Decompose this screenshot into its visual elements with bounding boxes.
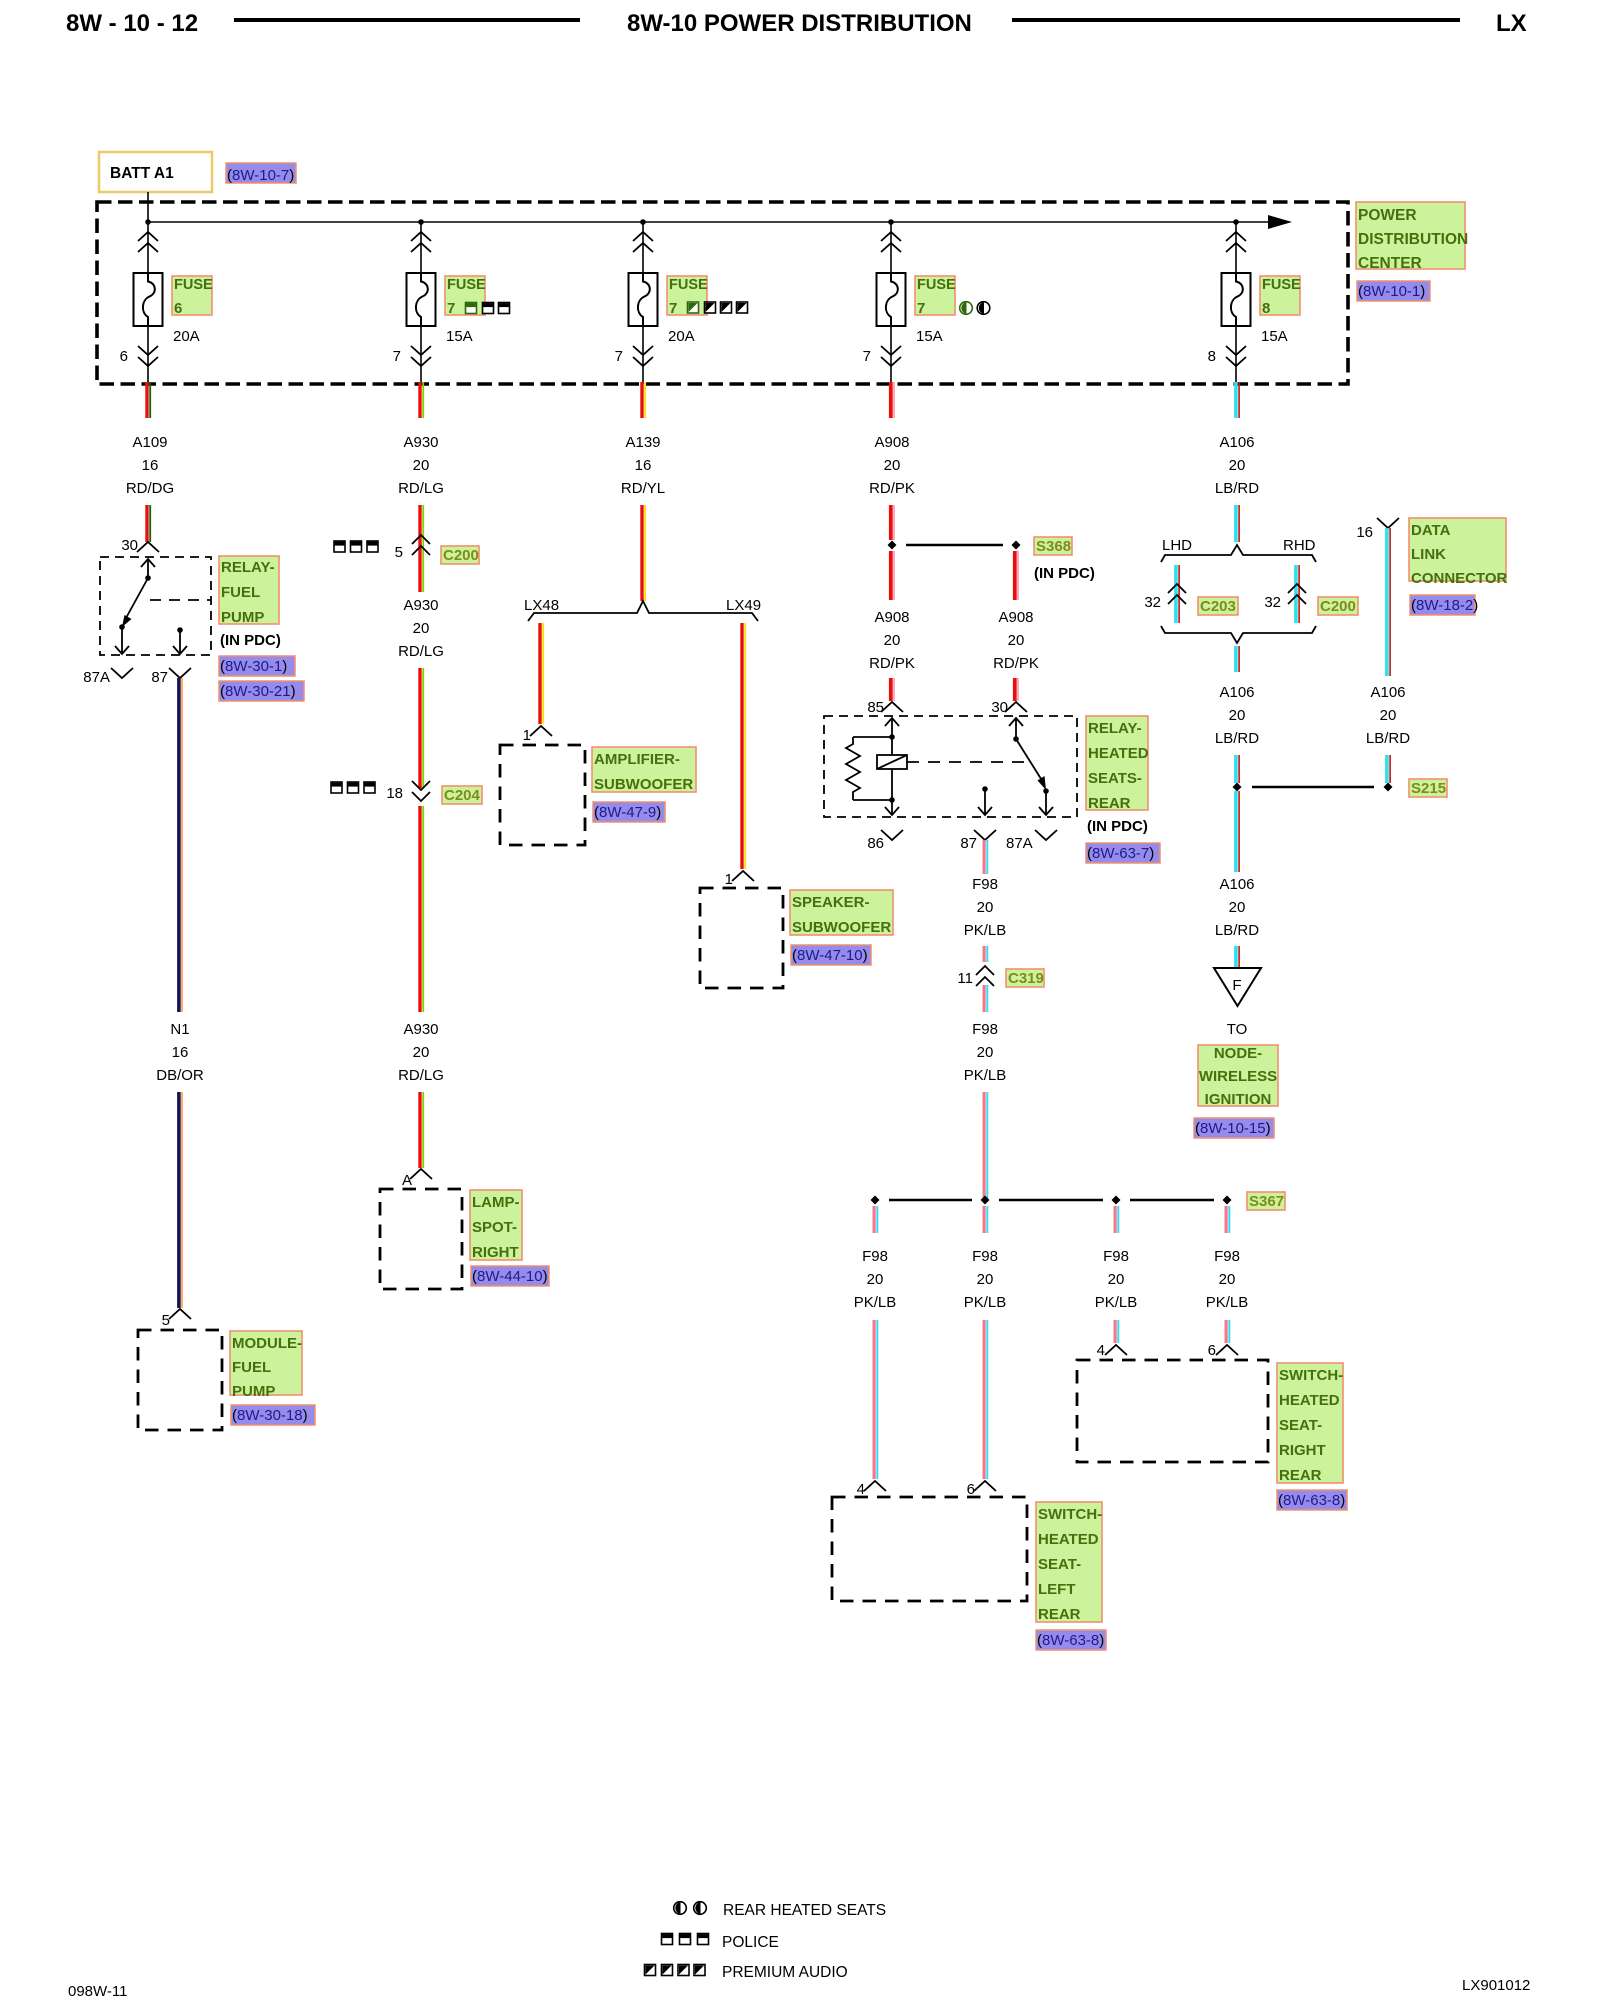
svg-text:LHD: LHD [1162, 537, 1192, 554]
wire F98 branch 2 lower [983, 1320, 989, 1479]
svg-text:C200: C200 [1320, 598, 1356, 615]
splice S368 [888, 541, 1021, 550]
svg-text:20: 20 [1229, 457, 1246, 474]
label F98 20 PK/LB (2) [964, 1021, 1007, 1084]
svg-text:CENTER: CENTER [1358, 255, 1422, 272]
pin 30 relay fuel pump [121, 537, 159, 554]
svg-text:RELAY-: RELAY- [1088, 720, 1142, 737]
svg-text:A: A [402, 1172, 412, 1189]
svg-text:PK/LB: PK/LB [964, 922, 1007, 939]
svg-text:8: 8 [1262, 300, 1270, 317]
relay fuel pump dashed link [150, 599, 211, 601]
battery feed BATT A1 [99, 152, 212, 192]
label A930 20 RD/LG (2) [398, 597, 444, 660]
amplifier-subwoofer box [500, 745, 585, 845]
legend police [662, 1934, 779, 1952]
svg-text:DB/OR: DB/OR [156, 1067, 204, 1084]
svg-text:32: 32 [1144, 594, 1161, 611]
svg-text:(IN PDC): (IN PDC) [220, 632, 281, 649]
page ref (8W-30-1) [219, 656, 295, 676]
svg-text:RD/PK: RD/PK [993, 655, 1039, 672]
svg-text:PUMP: PUMP [232, 1383, 275, 1400]
svg-text:20: 20 [1229, 707, 1246, 724]
svg-text:098W-11: 098W-11 [68, 1983, 127, 2000]
fuse F7 label [445, 276, 486, 315]
svg-text:LINK: LINK [1411, 546, 1446, 563]
page ref (8W-30-18) [231, 1405, 315, 1425]
label NODE-WIRELESS IGNITION [1198, 1045, 1278, 1108]
label A106 20 LB/RD (3) [1215, 876, 1259, 939]
wire A106 DLC seg1 [1385, 528, 1391, 676]
svg-text:LX48: LX48 [524, 597, 559, 614]
wire A930 seg1 [418, 382, 424, 418]
svg-text:4: 4 [857, 1481, 865, 1498]
svg-text:(8W-47-10): (8W-47-10) [792, 947, 868, 964]
svg-text:15A: 15A [916, 328, 943, 345]
svg-text:18: 18 [386, 785, 403, 802]
svg-text:SUBWOOFER: SUBWOOFER [792, 919, 891, 936]
svg-text:RD/LG: RD/LG [398, 480, 444, 497]
pin 4 switch right rear [1097, 1342, 1127, 1359]
svg-text:A908: A908 [874, 609, 909, 626]
svg-text:6: 6 [967, 1481, 975, 1498]
svg-text:LB/RD: LB/RD [1215, 480, 1259, 497]
label SWITCH-HEATED SEAT-LEFT REAR [1036, 1502, 1102, 1623]
power distribution center box [97, 202, 1348, 384]
svg-text:7: 7 [615, 348, 623, 365]
svg-text:11: 11 [957, 970, 973, 987]
svg-text:7: 7 [669, 300, 677, 317]
relay fuel pump switch [115, 559, 155, 654]
svg-text:15A: 15A [1261, 328, 1288, 345]
page ref (8W-44-10) [471, 1266, 549, 1286]
wire A139 lower [640, 505, 646, 601]
label F98 20 PK/LB branch 2 [964, 1248, 1007, 1311]
pin 85 [867, 699, 903, 716]
bus junction x=421 [418, 219, 424, 225]
svg-text:(8W-63-7): (8W-63-7) [1087, 845, 1154, 862]
page ref (8W-63-7) [1086, 843, 1160, 863]
svg-text:(8W-18-2): (8W-18-2) [1411, 597, 1478, 614]
svg-text:SWITCH-: SWITCH- [1038, 1506, 1102, 1523]
label C200 [441, 546, 479, 564]
wire A908 right seg2 [1013, 678, 1019, 701]
fuse F8 x=1236 (15A) [1222, 222, 1251, 384]
wire A908 left seg [889, 551, 895, 600]
wire F98 branch 1 lower [873, 1320, 879, 1479]
bus junction x=1236 [1233, 219, 1239, 225]
fuse F7 x=643 (20A) [629, 222, 658, 384]
svg-text:SEAT-: SEAT- [1038, 1556, 1081, 1573]
relay heated seats switch [1009, 718, 1053, 815]
svg-text:5: 5 [162, 1312, 170, 1329]
svg-text:RD/PK: RD/PK [869, 655, 915, 672]
svg-text:A930: A930 [403, 434, 438, 451]
in-line connector C203 [1168, 584, 1186, 604]
svg-text:87: 87 [960, 835, 977, 852]
label MODULE-FUEL PUMP [230, 1331, 302, 1400]
svg-text:7: 7 [393, 348, 401, 365]
svg-text:87: 87 [151, 669, 168, 686]
off-page connector F triangle [1214, 968, 1261, 1006]
label RELAY-FUEL PUMP [219, 556, 279, 626]
svg-text:LX49: LX49 [726, 597, 761, 614]
in-line connector C200 (RHD) [1288, 584, 1306, 604]
svg-text:20A: 20A [173, 328, 200, 345]
svg-text:6: 6 [1208, 1342, 1216, 1359]
svg-text:A930: A930 [403, 1021, 438, 1038]
svg-text:REAR: REAR [1038, 1606, 1081, 1623]
pin 87 [151, 668, 191, 686]
svg-text:A106: A106 [1219, 684, 1254, 701]
wire N1 lower [177, 1092, 183, 1308]
wire F98 branch 4 lower [1225, 1320, 1231, 1343]
svg-text:LX: LX [1496, 10, 1527, 37]
fuse F7 x=891 (15A) [877, 222, 906, 384]
label A106 20 LB/RD (DLC) [1366, 684, 1410, 747]
fuse F7 label [915, 276, 956, 315]
page ref (8W-18-2) [1410, 595, 1478, 615]
svg-text:C200: C200 [443, 547, 479, 564]
wire A139 upper [640, 382, 646, 418]
svg-text:(8W-30-18): (8W-30-18) [232, 1407, 308, 1424]
svg-text:20: 20 [977, 899, 994, 916]
svg-text:87A: 87A [1006, 835, 1033, 852]
svg-text:20: 20 [413, 620, 430, 637]
svg-text:C319: C319 [1008, 970, 1044, 987]
svg-text:16: 16 [142, 457, 159, 474]
svg-text:C204: C204 [444, 787, 481, 804]
page ref (8W-30-21) [219, 681, 304, 701]
in-line connector C200 [412, 535, 430, 555]
pin 1 speaker-subwoofer [725, 871, 754, 888]
svg-text:S367: S367 [1249, 1193, 1284, 1210]
svg-text:(IN PDC): (IN PDC) [1087, 818, 1148, 835]
svg-text:FUSE: FUSE [1262, 277, 1301, 293]
pin A lamp spot right [402, 1169, 432, 1189]
svg-text:A139: A139 [625, 434, 660, 451]
label LAMP-SPOT-RIGHT [470, 1190, 522, 1261]
svg-text:AMPLIFIER-: AMPLIFIER- [594, 751, 680, 768]
label A908 20 RD/PK (1) [869, 434, 915, 497]
svg-text:(8W-10-1): (8W-10-1) [1358, 283, 1425, 300]
svg-text:(8W-63-8): (8W-63-8) [1037, 1632, 1104, 1649]
pin 1 amplifier-subwoofer [523, 726, 552, 744]
switch heated seat left rear box [832, 1497, 1027, 1601]
label A109 16 RD/DG [126, 434, 174, 497]
svg-text:MODULE-: MODULE- [232, 1335, 302, 1352]
svg-text:SEATS-: SEATS- [1088, 770, 1142, 787]
splice split LX48/LX49 [528, 601, 758, 621]
label S368 [1034, 537, 1072, 555]
label C204 [442, 786, 482, 804]
pin 6 switch right rear [1208, 1342, 1238, 1359]
wire F98 branch stub 2 [983, 1206, 989, 1233]
page ref (8W-10-7) [226, 163, 296, 184]
svg-text:6: 6 [120, 348, 128, 365]
svg-text:LAMP-: LAMP- [472, 1194, 520, 1211]
label DATA LINK CONNECTOR [1409, 518, 1508, 587]
pin 86 [867, 830, 903, 852]
label A139 16 RD/YL [621, 434, 665, 497]
svg-text:SPOT-: SPOT- [472, 1219, 517, 1236]
wire A930 seg4 [418, 668, 424, 788]
svg-text:RELAY-: RELAY- [221, 559, 275, 576]
wire A106 seg1 [1234, 382, 1240, 418]
svg-text:20: 20 [413, 1044, 430, 1061]
svg-text:20: 20 [1008, 632, 1025, 649]
lamp spot right box [380, 1189, 462, 1289]
svg-text:8: 8 [1208, 348, 1216, 365]
svg-text:16: 16 [635, 457, 652, 474]
svg-text:S215: S215 [1411, 780, 1446, 797]
svg-text:20: 20 [1380, 707, 1397, 724]
svg-text:7: 7 [917, 300, 925, 317]
svg-text:5: 5 [395, 544, 403, 561]
svg-text:BATT A1: BATT A1 [110, 165, 174, 182]
label A106 20 LB/RD (2) [1215, 684, 1259, 747]
svg-text:LB/RD: LB/RD [1215, 922, 1259, 939]
wire battery vertical [147, 192, 149, 273]
svg-text:7: 7 [447, 300, 455, 317]
svg-text:20: 20 [867, 1271, 884, 1288]
wire A908 seg1 [889, 382, 895, 418]
fuse F7 x=421 (15A) [407, 222, 436, 384]
svg-text:F98: F98 [862, 1248, 888, 1265]
police option symbols at fuse 2 [466, 303, 510, 314]
pin 4 switch left rear [857, 1481, 886, 1498]
svg-text:C203: C203 [1200, 598, 1236, 615]
pin 16 data link connector [1356, 518, 1399, 541]
label A908 20 RD/PK (left) [869, 609, 915, 672]
header rule left [234, 18, 580, 22]
police option symbols at C200 [334, 541, 378, 552]
wire A106 seg3 [1234, 646, 1240, 672]
svg-text:(IN PDC): (IN PDC) [1034, 565, 1095, 582]
wire LX48 branch [538, 623, 544, 724]
fuse F8 label [1260, 276, 1301, 315]
relay heated seats pin 87 arrow [978, 786, 992, 815]
svg-text:PK/LB: PK/LB [1095, 1294, 1138, 1311]
wire F98 branch stub 4 [1225, 1206, 1231, 1233]
label F98 20 PK/LB branch 1 [854, 1248, 897, 1311]
header rule right [1012, 18, 1460, 22]
pin 87A relay heated seats [1006, 830, 1057, 852]
svg-text:LX901012: LX901012 [1462, 1977, 1530, 1994]
label S215 [1409, 779, 1447, 797]
label F98 20 PK/LB branch 3 [1095, 1248, 1138, 1311]
svg-text:86: 86 [867, 835, 884, 852]
svg-text:PK/LB: PK/LB [854, 1294, 897, 1311]
svg-text:F: F [1232, 977, 1241, 994]
svg-text:DISTRIBUTION: DISTRIBUTION [1358, 231, 1468, 248]
svg-text:FUSE: FUSE [174, 277, 213, 293]
wire LX49 branch [740, 623, 746, 869]
bus junction x=891 [888, 219, 894, 225]
label POWER DISTRIBUTION CENTER [1356, 202, 1468, 272]
svg-text:REAR HEATED SEATS: REAR HEATED SEATS [723, 1902, 886, 1919]
bracket split LHD/RHD top [1161, 545, 1316, 562]
wire A908 right seg [1013, 551, 1019, 600]
svg-text:(8W-30-1): (8W-30-1) [220, 658, 287, 675]
svg-text:RD/YL: RD/YL [621, 480, 665, 497]
police option symbols at C204 [331, 782, 375, 793]
wire A106 LHD branch [1174, 565, 1180, 623]
svg-text:FUSE: FUSE [447, 277, 486, 293]
premium audio option symbols at fuse 3 [688, 302, 748, 313]
label AMPLIFIER-SUBWOOFER [592, 747, 696, 793]
svg-text:(8W-63-8): (8W-63-8) [1278, 1492, 1345, 1509]
wire F98 branch 3 lower [1114, 1320, 1120, 1343]
legend premium audio [645, 1964, 848, 1981]
svg-text:SWITCH-: SWITCH- [1279, 1367, 1343, 1384]
wire F98 branch stub 3 [1114, 1206, 1120, 1233]
svg-text:30: 30 [991, 699, 1008, 716]
svg-text:32: 32 [1264, 594, 1281, 611]
legend rear heated seats [674, 1902, 886, 1919]
svg-text:20: 20 [1219, 1271, 1236, 1288]
svg-text:7: 7 [863, 348, 871, 365]
bracket merge bottom [1161, 626, 1316, 643]
svg-text:SPEAKER-: SPEAKER- [792, 894, 870, 911]
pin 87 relay heated seats [960, 830, 996, 852]
svg-text:1: 1 [725, 871, 733, 888]
svg-text:RHD: RHD [1283, 537, 1316, 554]
label RELAY-HEATED SEATS-REAR [1086, 716, 1149, 812]
svg-text:20: 20 [884, 632, 901, 649]
svg-text:FUEL: FUEL [221, 584, 260, 601]
svg-text:8W - 10 - 12: 8W - 10 - 12 [66, 10, 198, 37]
label F98 20 PK/LB (1) [964, 876, 1007, 939]
svg-text:F98: F98 [1214, 1248, 1240, 1265]
pin 6 switch left rear [967, 1481, 996, 1498]
svg-text:RIGHT: RIGHT [472, 1244, 519, 1261]
page ref (8W-63-8) right [1277, 1490, 1347, 1510]
svg-text:TO: TO [1227, 1021, 1248, 1038]
fuse F6 x=148 (20A) [134, 232, 163, 384]
svg-text:POWER: POWER [1358, 207, 1417, 224]
svg-text:A106: A106 [1370, 684, 1405, 701]
pin 30 relay heated seats [991, 699, 1027, 716]
wire N1 upper [177, 678, 183, 1012]
label A908 20 RD/PK (right) [993, 609, 1039, 672]
wire F98 seg2 [983, 946, 989, 962]
svg-text:PK/LB: PK/LB [964, 1294, 1007, 1311]
svg-text:RD/DG: RD/DG [126, 480, 174, 497]
relay heated seats dashed link [907, 761, 1032, 763]
svg-text:F98: F98 [1103, 1248, 1129, 1265]
svg-text:(8W-30-21): (8W-30-21) [220, 683, 296, 700]
svg-text:F98: F98 [972, 1021, 998, 1038]
svg-text:(8W-44-10): (8W-44-10) [472, 1268, 548, 1285]
wire A106 RHD branch [1294, 565, 1300, 623]
page ref (8W-63-8) left [1036, 1630, 1106, 1650]
svg-text:LB/RD: LB/RD [1215, 730, 1259, 747]
label F98 20 PK/LB branch 4 [1206, 1248, 1249, 1311]
svg-text:SEAT-: SEAT- [1279, 1417, 1322, 1434]
svg-text:PK/LB: PK/LB [964, 1067, 1007, 1084]
svg-text:20: 20 [977, 1271, 994, 1288]
label C200 (RHD) [1318, 597, 1358, 615]
svg-text:LB/RD: LB/RD [1366, 730, 1410, 747]
svg-text:8W-10 POWER DISTRIBUTION: 8W-10 POWER DISTRIBUTION [627, 10, 972, 37]
svg-text:PK/LB: PK/LB [1206, 1294, 1249, 1311]
pin 5 module fuel pump [162, 1309, 191, 1329]
svg-text:16: 16 [172, 1044, 189, 1061]
svg-text:A109: A109 [132, 434, 167, 451]
svg-text:HEATED: HEATED [1279, 1392, 1340, 1409]
svg-text:F98: F98 [972, 1248, 998, 1265]
wire A930 seg6 [418, 1092, 424, 1168]
svg-text:87A: 87A [83, 669, 110, 686]
page ref (8W-47-10) [791, 945, 871, 965]
svg-text:6: 6 [174, 300, 182, 317]
page ref (8W-10-15) [1194, 1118, 1274, 1138]
svg-text:(8W-47-9): (8W-47-9) [594, 804, 661, 821]
svg-text:85: 85 [867, 699, 884, 716]
svg-text:20: 20 [1229, 899, 1246, 916]
svg-text:A908: A908 [998, 609, 1033, 626]
wire A109 lower [145, 505, 151, 542]
svg-text:HEATED: HEATED [1088, 745, 1149, 762]
svg-text:F98: F98 [972, 876, 998, 893]
page ref (8W-10-1) [1357, 281, 1430, 301]
svg-text:20: 20 [884, 457, 901, 474]
label A106 20 LB/RD (1) [1215, 434, 1259, 497]
label A930 20 RD/LG (1) [398, 434, 444, 497]
svg-text:A106: A106 [1219, 876, 1254, 893]
label C203 [1198, 597, 1238, 615]
wire A106 DLC seg2 [1385, 755, 1391, 783]
svg-text:PREMIUM AUDIO: PREMIUM AUDIO [722, 1964, 848, 1981]
wire F98 branch stub 1 [873, 1206, 879, 1233]
svg-text:16: 16 [1356, 524, 1373, 541]
bus junction x=643 [640, 219, 646, 225]
relay heated seats rear box [824, 716, 1077, 817]
speaker-subwoofer box [700, 888, 783, 988]
svg-text:RD/PK: RD/PK [869, 480, 915, 497]
wire A908 left seg2 [889, 678, 895, 701]
fuse F6 label [172, 276, 213, 315]
svg-text:20: 20 [1108, 1271, 1125, 1288]
wire A106 seg2 [1234, 505, 1240, 542]
svg-text:A908: A908 [874, 434, 909, 451]
svg-text:SUBWOOFER: SUBWOOFER [594, 776, 693, 793]
svg-text:15A: 15A [446, 328, 473, 345]
wire A908 seg2 [889, 505, 895, 540]
svg-text:HEATED: HEATED [1038, 1531, 1099, 1548]
bus wire B+ [148, 221, 1272, 223]
bus junction x=148 [145, 219, 151, 225]
svg-text:REAR: REAR [1088, 795, 1131, 812]
relay fuel pump box [100, 557, 211, 655]
in-line connector C204 [412, 781, 430, 801]
svg-text:PUMP: PUMP [221, 609, 264, 626]
svg-text:30: 30 [121, 537, 138, 554]
switch heated seat right rear box [1077, 1360, 1268, 1462]
svg-text:FUSE: FUSE [917, 277, 956, 293]
svg-text:20: 20 [413, 457, 430, 474]
in-line connector C319 [976, 966, 994, 986]
label SWITCH-HEATED SEAT-RIGHT REAR [1277, 1363, 1343, 1484]
relay fuel pump pin 87 arrow [173, 627, 187, 654]
splice S215 [1233, 783, 1393, 792]
svg-text:FUSE: FUSE [669, 277, 708, 293]
svg-text:4: 4 [1097, 1342, 1105, 1359]
wire A930 seg3 [418, 554, 424, 592]
svg-text:NODE-: NODE- [1214, 1045, 1262, 1062]
bus arrowhead [1268, 215, 1292, 229]
